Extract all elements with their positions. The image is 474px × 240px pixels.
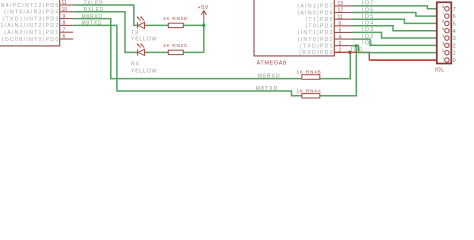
svg-text:(AIN1)PD7: (AIN1)PD7 — [297, 4, 333, 10]
svg-text:IO1: IO1 — [362, 41, 375, 47]
svg-text:M8TXD: M8TXD — [256, 86, 279, 92]
svg-text:1K RN4A: 1K RN4A — [297, 88, 322, 94]
svg-text:IO3: IO3 — [362, 27, 375, 33]
svg-text:YELLOW: YELLOW — [131, 37, 157, 43]
svg-text:10: 10 — [62, 7, 68, 13]
svg-text:3: 3 — [339, 41, 342, 47]
svg-text:2: 2 — [453, 43, 456, 49]
svg-text:(AIN0)PD6: (AIN0)PD6 — [297, 10, 333, 16]
svg-text:2: 2 — [339, 48, 342, 54]
svg-text:(OC0B/INT0)PD0: (OC0B/INT0)PD0 — [2, 37, 60, 43]
svg-text:9: 9 — [63, 14, 66, 20]
svg-text:1K RN4B: 1K RN4B — [297, 69, 322, 75]
svg-text:7: 7 — [453, 7, 456, 13]
svg-text:(RXD)PD0: (RXD)PD0 — [299, 50, 334, 56]
svg-text:0: 0 — [453, 58, 456, 64]
svg-text:M8RXD: M8RXD — [258, 73, 281, 79]
svg-text:IO2: IO2 — [362, 34, 375, 40]
svg-text:(TXD1/INT3)PD3: (TXD1/INT3)PD3 — [3, 16, 60, 22]
svg-text:(TXD)PD1: (TXD)PD1 — [300, 44, 334, 50]
svg-text:5: 5 — [453, 21, 456, 27]
svg-text:(T1)PD5: (T1)PD5 — [305, 17, 333, 23]
svg-text:4: 4 — [339, 34, 342, 40]
svg-text:IO6: IO6 — [362, 7, 375, 13]
svg-text:IO7: IO7 — [362, 1, 375, 7]
svg-text:5: 5 — [339, 28, 342, 34]
svg-text:1: 1 — [453, 51, 456, 57]
svg-text:IO0: IO0 — [351, 47, 364, 53]
svg-text:ATMEGA8: ATMEGA8 — [257, 61, 287, 67]
svg-text:TX: TX — [131, 31, 139, 37]
svg-text:RX: RX — [131, 62, 140, 68]
svg-text:IOL: IOL — [435, 67, 445, 73]
svg-text:11: 11 — [338, 14, 343, 20]
svg-text:12: 12 — [338, 8, 344, 14]
svg-text:6: 6 — [63, 34, 66, 40]
svg-text:13: 13 — [338, 1, 344, 7]
svg-text:+5V: +5V — [198, 5, 209, 11]
svg-text:4: 4 — [453, 29, 456, 35]
svg-text:(T0)PD4: (T0)PD4 — [305, 24, 333, 30]
svg-text:(INT5/AIN3)PD4: (INT5/AIN3)PD4 — [4, 10, 59, 16]
svg-text:IO4: IO4 — [362, 21, 375, 27]
svg-text:(INT1)PD3: (INT1)PD3 — [298, 30, 334, 36]
svg-text:1K RN2C: 1K RN2C — [163, 43, 188, 49]
svg-text:1K RN2D: 1K RN2D — [163, 16, 188, 22]
svg-text:(XCK/AIN4/PCINT12)PD5: (XCK/AIN4/PCINT12)PD5 — [0, 3, 60, 9]
svg-text:(INT0)PD2: (INT0)PD2 — [298, 37, 334, 43]
svg-text:6: 6 — [453, 14, 456, 20]
svg-text:IO5: IO5 — [362, 14, 375, 20]
svg-text:7: 7 — [63, 27, 66, 33]
svg-text:6: 6 — [339, 21, 342, 27]
svg-text:8: 8 — [63, 21, 66, 27]
svg-text:3: 3 — [453, 36, 456, 42]
svg-text:(RXD1/AIN1/INT2)PD2: (RXD1/AIN1/INT2)PD2 — [0, 23, 60, 29]
svg-text:(AIN0/INT1)PD1: (AIN0/INT1)PD1 — [4, 30, 59, 36]
svg-text:YELLOW: YELLOW — [131, 68, 157, 74]
svg-text:11: 11 — [62, 0, 67, 6]
